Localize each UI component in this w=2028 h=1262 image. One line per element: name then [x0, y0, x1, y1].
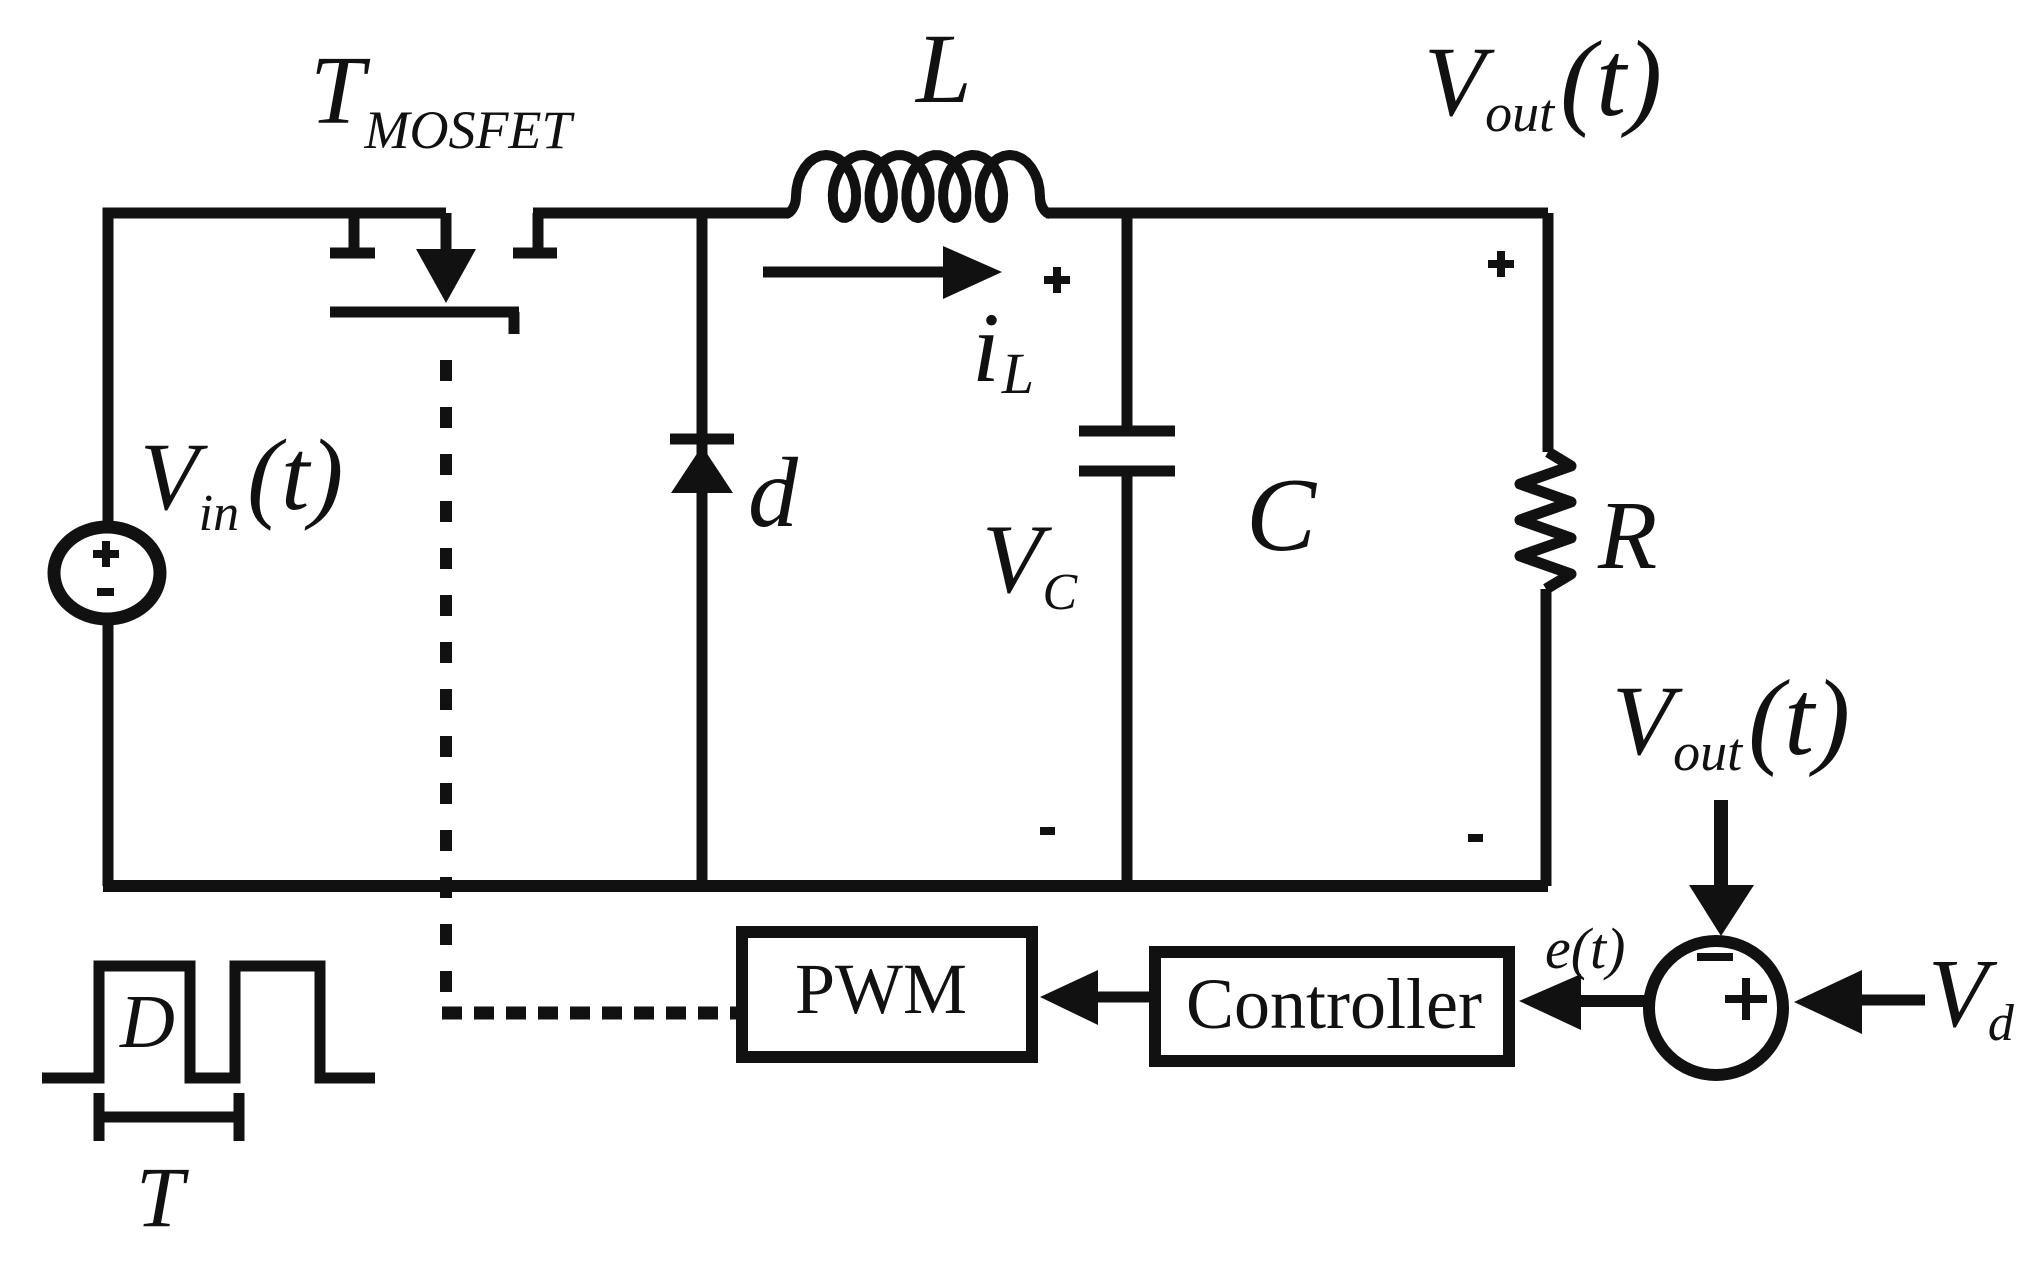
inductor L coil	[786, 155, 1050, 218]
transistor Q1 MOSFET	[330, 213, 557, 334]
svg-text:e(t): e(t)	[1545, 916, 1626, 981]
Controller box	[1155, 952, 1509, 1061]
svg-text:L: L	[914, 13, 972, 124]
arrow summing to Controller	[1519, 974, 1648, 1030]
PWM box	[742, 932, 1032, 1057]
svg-text:R: R	[1597, 482, 1657, 589]
transistor arrow	[416, 249, 476, 303]
wire top right segment	[1046, 208, 1548, 219]
wire right vertical	[1543, 213, 1554, 452]
svg-text:d: d	[748, 437, 799, 548]
minus mark near R	[1468, 834, 1483, 842]
plus mark top right	[1488, 251, 1514, 277]
svg-text:iL: iL	[972, 292, 1034, 406]
capacitor C leads	[1122, 213, 1133, 886]
minus mark near Vc	[1040, 827, 1055, 835]
diode d wire	[697, 213, 708, 886]
svg-text:VC: VC	[982, 505, 1078, 621]
pulse waveform D	[42, 966, 375, 1078]
wire left and top-left segment	[108, 213, 446, 886]
svg-text:TMOSFET: TMOSFET	[310, 37, 575, 160]
svg-text:D: D	[119, 980, 175, 1064]
wire bottom	[103, 880, 1548, 892]
arrow Controller to PWM	[1040, 970, 1155, 1025]
minus inside summing	[1697, 953, 1733, 961]
plus mark near iL	[1044, 267, 1070, 293]
capacitor C plates	[1079, 431, 1175, 471]
svg-text:Vout(t): Vout(t)	[1424, 20, 1662, 143]
wire right vertical lower	[1541, 589, 1552, 886]
svg-text:C: C	[1246, 456, 1318, 573]
svg-text:Vin(t): Vin(t)	[140, 419, 343, 542]
arrow iL	[763, 246, 1002, 299]
arrow Vd to summing	[1794, 970, 1925, 1034]
T measure bar	[95, 1093, 244, 1141]
arrow Vout down	[1689, 800, 1754, 936]
svg-text:Controller: Controller	[1186, 964, 1482, 1044]
svg-text:Vd: Vd	[1928, 940, 2015, 1052]
svg-text:T: T	[136, 1149, 189, 1245]
resistor R zigzag	[1520, 452, 1571, 589]
svg-text:PWM: PWM	[795, 949, 967, 1029]
svg-text:Vout(t): Vout(t)	[1612, 659, 1850, 782]
plus inside summing	[1725, 978, 1767, 1020]
wire top middle segment	[533, 208, 788, 219]
summing junction circle	[1649, 941, 1783, 1075]
dashed gate wire vertical	[440, 360, 452, 1016]
voltage source Vin circle	[54, 527, 160, 619]
diode d symbol	[670, 439, 734, 493]
dashed gate wire horizontal	[442, 1007, 737, 1020]
